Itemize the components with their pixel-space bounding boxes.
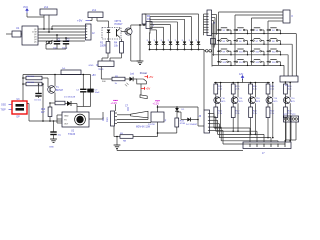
resistor R8 xyxy=(106,76,125,85)
wire xyxy=(247,30,248,34)
resistor R10 xyxy=(41,103,52,121)
capacitor C4 xyxy=(76,74,87,92)
svg-text:MDV-6X-12W: MDV-6X-12W xyxy=(136,126,151,128)
transistor T10 xyxy=(214,94,226,104)
switch S8 xyxy=(267,38,281,42)
wire xyxy=(110,53,122,61)
wire bus xyxy=(210,114,251,143)
connector J1 2x1 xyxy=(40,5,57,15)
transmitter module U2 xyxy=(62,112,89,136)
horn symbol xyxy=(131,111,149,118)
wire xyxy=(230,41,231,45)
power flag VCC xyxy=(23,6,29,13)
wire xyxy=(212,21,214,56)
connector J2 xyxy=(86,24,96,40)
power label +5V xyxy=(77,19,90,23)
ground xyxy=(114,145,121,149)
wire xyxy=(267,118,269,139)
wire xyxy=(116,149,118,151)
wire xyxy=(184,45,186,50)
capacitor C6 xyxy=(50,132,62,137)
svg-text:R6 10k: R6 10k xyxy=(27,82,35,84)
wire xyxy=(212,18,216,46)
wire xyxy=(57,115,62,123)
wire xyxy=(54,74,56,87)
svg-text:2x1: 2x1 xyxy=(44,5,49,9)
dip switch DP1 xyxy=(12,99,27,119)
svg-text:PC817: PC817 xyxy=(115,22,123,26)
wire bus xyxy=(210,117,258,142)
label MDV xyxy=(136,126,151,128)
svg-text:2x1: 2x1 xyxy=(92,8,97,12)
transistor T11 xyxy=(231,94,243,104)
power flag +5V a xyxy=(145,75,154,79)
wire xyxy=(203,50,205,111)
wire xyxy=(250,118,252,136)
wire xyxy=(54,93,56,101)
diode D10 xyxy=(181,118,199,127)
svg-text:12V: 12V xyxy=(239,73,244,76)
svg-text:TX433: TX433 xyxy=(68,133,76,136)
capacitor C2 xyxy=(63,40,70,44)
wire xyxy=(27,104,29,122)
wire bus xyxy=(150,49,205,51)
wire xyxy=(263,62,264,66)
power flag +12V b xyxy=(111,100,119,105)
wire xyxy=(255,82,257,98)
diode D5 xyxy=(168,40,173,45)
wire row xyxy=(212,55,288,76)
svg-text:Power: Power xyxy=(140,71,147,75)
wire xyxy=(38,34,85,36)
wire row xyxy=(212,44,292,76)
svg-text:OSD: OSD xyxy=(1,105,6,107)
wire xyxy=(289,82,291,98)
wire xyxy=(43,15,45,30)
capacitor C5 xyxy=(34,83,42,101)
resistor R3 xyxy=(100,42,110,54)
wire xyxy=(289,103,291,141)
wire xyxy=(280,41,281,45)
wire xyxy=(42,78,48,87)
diode D8 xyxy=(147,40,152,45)
wire xyxy=(263,51,264,55)
wire xyxy=(65,37,67,41)
switch S13 xyxy=(217,60,231,64)
label GND xyxy=(49,147,54,149)
svg-text:R10: R10 xyxy=(41,109,46,111)
switch S7 xyxy=(250,38,264,42)
wire xyxy=(215,118,217,129)
wire xyxy=(280,62,281,66)
connector XT1 xyxy=(284,114,292,122)
wire xyxy=(116,136,118,145)
capacitor C7 xyxy=(87,75,100,95)
wire xyxy=(285,118,287,142)
wire xyxy=(255,103,257,135)
wire xyxy=(117,122,151,124)
resistor R22 bottom xyxy=(249,99,258,117)
diode D4 xyxy=(175,40,180,45)
switch S4 xyxy=(267,28,281,32)
label C1 value xyxy=(53,48,58,50)
wire xyxy=(131,25,140,61)
diode D1 xyxy=(196,40,201,45)
connector J7 xyxy=(243,142,291,155)
jack J9 xyxy=(204,50,212,53)
svg-text:+5V: +5V xyxy=(92,74,97,77)
switch S14 xyxy=(234,60,248,64)
wire xyxy=(272,103,274,138)
wire xyxy=(38,37,85,39)
transistor T14 xyxy=(283,94,295,104)
transistor T12 xyxy=(249,94,261,104)
label 500 xyxy=(102,81,106,83)
wire bus xyxy=(210,131,286,145)
resistor R24 bottom xyxy=(284,99,293,117)
label antenna xyxy=(89,112,105,121)
power flag +12V xyxy=(153,101,161,106)
wire xyxy=(102,53,108,61)
switch S16 xyxy=(267,60,281,64)
label 5V arrow xyxy=(92,74,97,77)
connector J8 xyxy=(280,76,298,87)
wire xyxy=(219,12,284,30)
wire xyxy=(38,96,40,98)
wire xyxy=(232,118,234,133)
switch S3 xyxy=(250,28,264,32)
wire xyxy=(247,62,248,66)
resistor R14 top xyxy=(284,81,293,94)
wire column xyxy=(267,30,269,65)
ic U1 xyxy=(16,26,38,45)
switch S15 xyxy=(250,60,264,64)
diode D3 xyxy=(182,40,187,45)
transistor T13 xyxy=(266,94,278,104)
wire xyxy=(211,24,214,67)
svg-text:TISP: TISP xyxy=(1,110,7,112)
transistor T2 xyxy=(121,28,132,35)
wire xyxy=(230,51,231,55)
wire xyxy=(42,83,43,85)
connector CON2 xyxy=(89,61,115,71)
svg-text:DP: DP xyxy=(17,117,21,119)
wire fan to diodes xyxy=(144,14,199,42)
wire xyxy=(29,120,62,122)
wire xyxy=(51,26,85,30)
label Power xyxy=(140,71,147,75)
wire xyxy=(263,41,264,45)
switch S10 xyxy=(234,49,248,53)
wire xyxy=(27,13,44,17)
wire bus xyxy=(210,127,279,142)
svg-text:D-2 1N4007: D-2 1N4007 xyxy=(186,124,198,126)
wire xyxy=(263,30,264,34)
wire column xyxy=(234,30,236,65)
connector J3 2x1 xyxy=(88,8,103,18)
wire bus xyxy=(210,120,265,142)
wire xyxy=(117,118,148,120)
wire xyxy=(115,104,117,111)
wire row xyxy=(212,65,284,76)
svg-text:GND: GND xyxy=(89,65,94,67)
resistor R4 xyxy=(114,39,123,53)
svg-text:+5V: +5V xyxy=(77,19,82,23)
wire xyxy=(230,62,231,66)
capacitor C1 xyxy=(54,40,61,44)
wire xyxy=(114,126,120,137)
power flag +5V b xyxy=(141,87,150,91)
wire xyxy=(230,30,231,34)
connector J4 xyxy=(146,22,155,29)
resistor R2 xyxy=(142,14,152,25)
svg-text:U1: U1 xyxy=(16,26,20,30)
wire xyxy=(204,14,208,35)
wire rail xyxy=(23,74,91,76)
ground xyxy=(50,139,57,143)
label C8 xyxy=(125,104,129,111)
wire column xyxy=(218,30,220,65)
wire xyxy=(90,18,92,21)
wire xyxy=(117,150,243,152)
wire xyxy=(22,75,24,102)
wire xyxy=(198,107,204,126)
wire xyxy=(101,67,106,80)
connector J5 xyxy=(207,10,216,36)
wire xyxy=(56,34,58,41)
inductor FB1 xyxy=(120,133,133,143)
svg-text:R5 10k: R5 10k xyxy=(27,76,35,78)
resistor R13 top xyxy=(266,82,275,94)
wire xyxy=(237,82,239,98)
wire xyxy=(38,28,85,30)
resistor R12 top xyxy=(249,82,258,94)
label D1 xyxy=(64,97,76,99)
connector CON4 xyxy=(61,68,81,74)
flag symbol 2 xyxy=(140,95,147,99)
switch S12 xyxy=(267,49,281,53)
optocoupler OPT1 PC817 xyxy=(102,19,123,39)
wire xyxy=(220,82,222,98)
label TISP xyxy=(1,110,12,112)
wire xyxy=(177,112,181,120)
relay RL1 xyxy=(148,112,167,126)
svg-text:+5V: +5V xyxy=(146,87,151,91)
wire xyxy=(156,45,158,50)
wire xyxy=(268,21,283,30)
wire xyxy=(117,114,131,116)
resistor R10 top xyxy=(214,82,223,94)
wire bus xyxy=(210,124,272,142)
power flag 12V xyxy=(239,73,244,80)
wire vertical rail xyxy=(42,83,44,121)
resistor R21 bottom xyxy=(231,99,240,117)
wire xyxy=(157,105,198,112)
wire xyxy=(90,92,92,107)
crystal X1 xyxy=(46,40,53,45)
svg-text:GND: GND xyxy=(64,116,69,118)
connector CON3 xyxy=(106,111,117,126)
wire xyxy=(77,92,91,107)
wire xyxy=(53,135,55,140)
wire xyxy=(280,51,281,55)
flag symbol 1 xyxy=(137,79,147,84)
led LED1 xyxy=(125,73,135,87)
wire xyxy=(212,15,217,35)
wire xyxy=(285,122,296,142)
svg-text:GND: GND xyxy=(49,147,54,149)
svg-text:VCC: VCC xyxy=(23,6,28,9)
wire xyxy=(48,15,50,33)
wire xyxy=(272,82,274,98)
wire xyxy=(53,121,55,132)
wire xyxy=(38,31,85,33)
switch S2 xyxy=(234,28,248,32)
svg-text:470R: 470R xyxy=(180,123,186,125)
resistor R11 top xyxy=(231,82,240,94)
wire xyxy=(97,18,109,29)
wire xyxy=(247,41,248,45)
svg-text:+12V: +12V xyxy=(111,101,118,105)
wire xyxy=(133,78,137,80)
label OSD xyxy=(1,105,12,107)
svg-text:NB: NB xyxy=(123,141,127,143)
wire xyxy=(220,103,222,129)
label C2 value xyxy=(62,48,68,50)
diode D2 xyxy=(189,40,194,45)
opto phototransistor xyxy=(117,29,121,38)
wire xyxy=(191,45,193,50)
svg-text:100R: 100R xyxy=(100,44,106,47)
wire xyxy=(235,15,283,30)
resistor R23 bottom xyxy=(266,99,275,117)
ground xyxy=(137,61,144,65)
wire xyxy=(133,136,158,138)
connector P2 xyxy=(211,39,216,48)
resistor R20 bottom xyxy=(214,99,223,117)
wire rail xyxy=(214,79,270,83)
switch S5 xyxy=(217,38,231,42)
resistor R7 xyxy=(49,101,65,105)
svg-text:+5V: +5V xyxy=(149,75,154,79)
wire xyxy=(46,44,66,49)
svg-text:Led: Led xyxy=(130,73,135,76)
wire xyxy=(198,45,200,50)
resistor R11 xyxy=(175,118,186,127)
wire column xyxy=(251,30,253,65)
svg-text:10uF: 10uF xyxy=(95,92,101,94)
switch S11 xyxy=(250,49,264,53)
svg-text:Con: Con xyxy=(106,117,109,122)
wire xyxy=(56,44,58,49)
connector XT2 xyxy=(291,114,299,122)
diode D9 xyxy=(175,106,185,118)
connector J6 xyxy=(199,110,210,133)
wire xyxy=(38,40,85,42)
opto led xyxy=(107,30,111,42)
svg-text:+12V: +12V xyxy=(153,102,160,106)
wire xyxy=(170,45,172,50)
wire xyxy=(140,84,142,95)
diode D6 xyxy=(161,40,166,45)
svg-text:D1 1N4148: D1 1N4148 xyxy=(64,97,76,99)
wire xyxy=(252,18,284,30)
wire xyxy=(247,51,248,55)
switch S9 xyxy=(217,49,231,53)
diode D1 xyxy=(65,101,77,112)
resistor R6 xyxy=(23,82,42,86)
wire xyxy=(157,122,177,137)
switch S6 xyxy=(234,38,248,42)
wire xyxy=(163,45,165,50)
svg-text:C5 10n: C5 10n xyxy=(34,100,42,102)
svg-text:BC547: BC547 xyxy=(56,90,64,92)
resistor R5 xyxy=(23,76,42,80)
diode D7 xyxy=(154,40,159,45)
wire xyxy=(149,45,151,50)
wire xyxy=(237,103,239,132)
connector CN1 xyxy=(6,31,22,37)
wire row xyxy=(212,34,296,76)
connector K1 xyxy=(283,10,294,23)
switch S1 xyxy=(217,28,231,32)
wire xyxy=(280,30,281,34)
wire xyxy=(177,45,179,50)
transistor T1 xyxy=(48,86,64,94)
wire xyxy=(131,24,146,29)
